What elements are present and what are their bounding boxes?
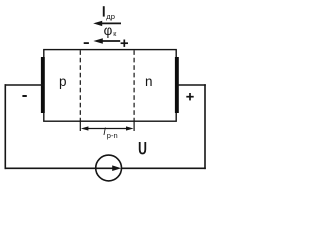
plus terminal label — [186, 93, 193, 100]
wire left vertical — [4, 84, 6, 169]
svg-text:p-n: p-n — [107, 131, 118, 140]
minus sign of φ_к — [84, 42, 89, 44]
dimension line l_p-n with outward arrows — [81, 126, 134, 130]
semiconductor body rectangle — [44, 50, 176, 122]
svg-text:др: др — [106, 12, 115, 21]
dashed junction boundary left — [79, 50, 81, 120]
wire bottom right segment — [122, 167, 206, 169]
label l_p-n — [103, 127, 117, 140]
dashed junction boundary right — [133, 50, 135, 120]
left electrode bar — [41, 57, 45, 113]
arrow φ_к direction (left) — [93, 38, 120, 43]
minus terminal label — [22, 95, 26, 97]
label φ_к (contact potential) — [104, 23, 118, 38]
arrow I_др direction (left) — [93, 21, 121, 26]
svg-text:n: n — [145, 74, 153, 89]
right electrode bar — [175, 57, 179, 113]
current source circle — [96, 155, 122, 181]
dimension extension tick left — [79, 121, 81, 131]
dimension extension tick right — [133, 121, 135, 131]
wire right horizontal — [177, 84, 206, 86]
wire bottom left segment — [5, 167, 97, 169]
label U (narrow glyph) — [140, 142, 146, 154]
svg-text:p: p — [59, 74, 67, 89]
label I_др (drift current) — [103, 6, 115, 21]
plus sign of φ_к — [121, 40, 128, 47]
svg-text:φ: φ — [104, 23, 113, 38]
current source arrow (right) — [96, 165, 121, 171]
wire left horizontal — [5, 84, 44, 86]
wire right vertical — [204, 84, 206, 169]
